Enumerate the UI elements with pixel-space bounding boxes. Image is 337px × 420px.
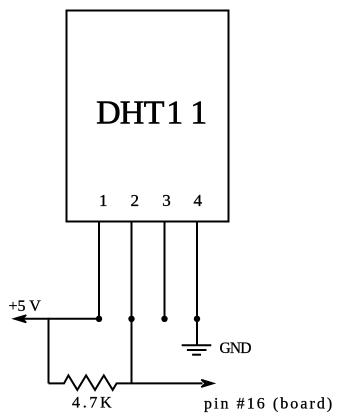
svg-text:+5 V: +5 V xyxy=(9,298,42,315)
arrowhead +5V (points left) xyxy=(14,315,26,322)
svg-text:4: 4 xyxy=(194,191,203,210)
arrowhead data line (points right) xyxy=(201,380,213,387)
svg-text:4.7K: 4.7K xyxy=(72,395,114,412)
wire left vertical drop xyxy=(48,318,50,384)
junction dot pin2 xyxy=(128,316,134,322)
wire +5V horizontal xyxy=(23,318,100,320)
ground symbol xyxy=(182,344,212,346)
DHT11 sensor body U1 xyxy=(67,11,229,222)
resistor R1 4.7K zigzag with leads xyxy=(49,375,203,390)
wire pin4 vertical xyxy=(196,221,198,345)
junction dot pin1 xyxy=(96,316,102,322)
svg-text:pin #16 (board): pin #16 (board) xyxy=(204,396,334,413)
junction dot pin4 xyxy=(194,316,200,322)
svg-text:GND: GND xyxy=(220,340,252,357)
wire pin1 vertical xyxy=(98,221,100,319)
wire pin3 vertical xyxy=(164,221,166,319)
svg-text:DHT11: DHT11 xyxy=(96,95,207,132)
junction dot pin3 xyxy=(161,316,167,322)
svg-text:2: 2 xyxy=(131,191,140,210)
svg-text:3: 3 xyxy=(162,191,171,210)
wire pin2 vertical xyxy=(131,221,133,383)
svg-text:1: 1 xyxy=(99,191,108,210)
